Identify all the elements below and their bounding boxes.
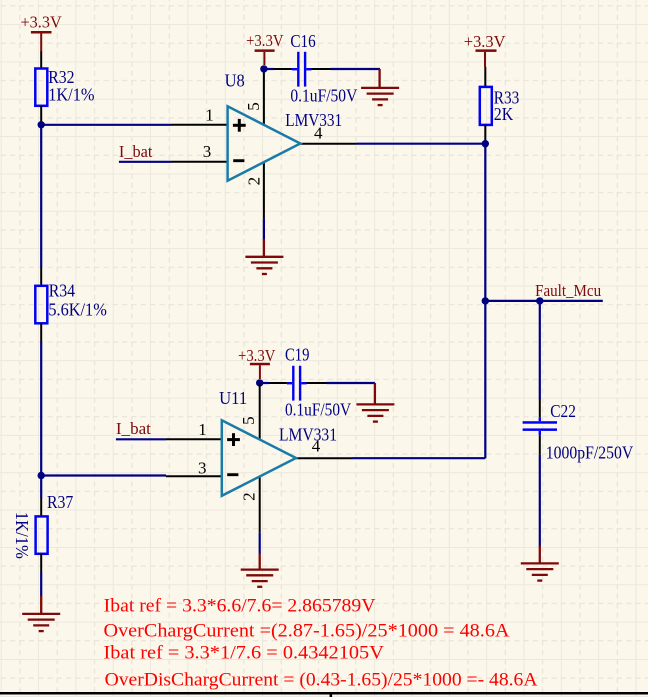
wire U8 output bbox=[357, 143, 486, 145]
wire C19 to ground bbox=[327, 382, 375, 384]
ground (C19) bbox=[356, 383, 394, 422]
power +3.3V (C16) bbox=[246, 31, 284, 65]
wire C22 to ground bbox=[539, 455, 541, 547]
ground (C16) bbox=[361, 69, 399, 105]
svg-text:2K: 2K bbox=[494, 104, 513, 124]
node junction C16/pin5 bbox=[260, 65, 267, 72]
node junction C19/pin5 bbox=[256, 379, 263, 386]
ground (U11 pin2) bbox=[241, 553, 279, 587]
svg-text:R34: R34 bbox=[49, 280, 75, 300]
resistor R32 bbox=[35, 52, 47, 125]
wire I_bat to U11 pin1 bbox=[116, 438, 166, 440]
wire junction to U8 pin1 bbox=[41, 124, 172, 126]
svg-text:2: 2 bbox=[244, 177, 263, 186]
wire junction to U11 pin3 bbox=[41, 474, 166, 476]
power +3.3V (C19) bbox=[238, 346, 276, 379]
svg-text:I_bat: I_bat bbox=[116, 419, 151, 438]
wire I_bat to U8 pin3 bbox=[119, 161, 172, 163]
svg-text:+3.3V: +3.3V bbox=[21, 12, 63, 31]
wire U11 pin2 to ground bbox=[259, 532, 261, 554]
svg-text:Fault_Mcu: Fault_Mcu bbox=[535, 281, 601, 300]
wire R37 to ground bbox=[40, 573, 42, 597]
resistor R33 bbox=[480, 67, 492, 144]
svg-text:Ibat ref = 3.3*1/7.6 = 0.43421: Ibat ref = 3.3*1/7.6 = 0.4342105V bbox=[104, 643, 385, 664]
svg-text:1K/1%: 1K/1% bbox=[12, 512, 32, 559]
resistor R34 bbox=[35, 267, 47, 342]
node junction Fault_Mcu bbox=[482, 297, 489, 304]
power +3.3V (left rail) bbox=[21, 12, 63, 52]
svg-text:OverDisChargCurrent = (0.43-1.: OverDisChargCurrent = (0.43-1.65)/25*100… bbox=[105, 670, 538, 691]
svg-text:0.1uF/50V: 0.1uF/50V bbox=[285, 399, 351, 419]
svg-text:+3.3V: +3.3V bbox=[238, 346, 276, 365]
svg-text:1000pF/250V: 1000pF/250V bbox=[546, 442, 633, 462]
wire Fault_Mcu bbox=[485, 300, 603, 302]
svg-text:5: 5 bbox=[244, 102, 263, 111]
node junction R32/R34/pin1 bbox=[38, 121, 45, 128]
svg-text:U11: U11 bbox=[219, 388, 247, 408]
svg-text:LMV331: LMV331 bbox=[279, 424, 337, 444]
svg-text:+3.3V: +3.3V bbox=[464, 32, 506, 51]
svg-text:Ibat ref = 3.3*6.6/7.6= 2.8657: Ibat ref = 3.3*6.6/7.6= 2.865789V bbox=[104, 596, 376, 617]
svg-text:OverChargCurrent =(2.87-1.65)/: OverChargCurrent =(2.87-1.65)/25*1000 = … bbox=[104, 620, 510, 641]
svg-text:1K/1%: 1K/1% bbox=[48, 84, 94, 104]
svg-text:5: 5 bbox=[239, 416, 258, 425]
wire node to C22 bbox=[539, 301, 541, 400]
wire junction to C16 bbox=[264, 68, 274, 70]
wire junction to C19 bbox=[260, 382, 269, 384]
svg-text:1: 1 bbox=[198, 420, 207, 439]
ground (U8 pin2) bbox=[245, 239, 283, 274]
node junction R33/U8 out bbox=[482, 140, 489, 147]
svg-text:4: 4 bbox=[312, 436, 321, 455]
wire U11 output bbox=[352, 457, 485, 459]
op-amp U8 bbox=[172, 68, 357, 218]
capacitor C19 bbox=[269, 366, 327, 401]
svg-text:C16: C16 bbox=[290, 31, 315, 51]
svg-text:3: 3 bbox=[203, 142, 212, 161]
svg-text:1: 1 bbox=[205, 105, 214, 124]
svg-text:I_bat: I_bat bbox=[119, 142, 153, 161]
sheet border bottom bbox=[0, 692, 648, 697]
ground (R37) bbox=[22, 596, 60, 632]
wire C16 to ground bbox=[331, 68, 381, 70]
wire U8 pin2 to ground bbox=[263, 218, 265, 239]
node junction R34/R37/pin3 bbox=[38, 472, 45, 479]
svg-text:C19: C19 bbox=[285, 345, 309, 365]
wire rail R34 to R37 bbox=[40, 342, 42, 498]
svg-text:U8: U8 bbox=[225, 70, 245, 90]
svg-text:2: 2 bbox=[240, 492, 259, 501]
svg-text:C22: C22 bbox=[550, 401, 576, 421]
ground (C22) bbox=[521, 546, 559, 581]
capacitor C16 bbox=[274, 52, 331, 87]
wire R33 junction down to Fault node bbox=[484, 144, 486, 301]
svg-text:+3.3V: +3.3V bbox=[246, 31, 284, 50]
node junction C22 bbox=[536, 297, 543, 304]
op-amp U11 bbox=[166, 383, 352, 532]
svg-text:4: 4 bbox=[314, 123, 323, 142]
svg-text:0.1uF/50V: 0.1uF/50V bbox=[290, 86, 357, 106]
wire rail R32 to R34 bbox=[40, 125, 42, 267]
power +3.3V (R33) bbox=[464, 32, 506, 67]
svg-text:R37: R37 bbox=[47, 492, 73, 512]
svg-text:5.6K/1%: 5.6K/1% bbox=[48, 299, 106, 319]
capacitor C22 bbox=[523, 400, 557, 455]
svg-text:3: 3 bbox=[198, 459, 207, 478]
wire U11 output up to Fault node bbox=[484, 301, 486, 458]
resistor R37 bbox=[36, 498, 48, 573]
